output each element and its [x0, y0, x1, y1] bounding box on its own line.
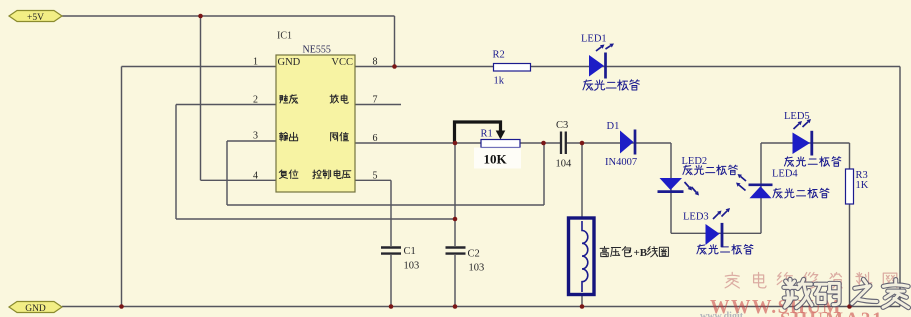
- svg-text:GND: GND: [25, 304, 46, 314]
- svg-text:8: 8: [373, 57, 378, 68]
- svg-text:R2: R2: [493, 50, 505, 61]
- svg-text:IC1: IC1: [277, 31, 292, 42]
- svg-text:+B: +B: [634, 247, 648, 259]
- svg-text:10K: 10K: [484, 152, 508, 167]
- svg-text:103: 103: [469, 263, 485, 274]
- svg-text:6: 6: [373, 133, 378, 144]
- svg-text:C3: C3: [556, 120, 568, 131]
- svg-text:VCC: VCC: [331, 57, 353, 68]
- svg-text:7: 7: [373, 95, 378, 106]
- svg-text:103: 103: [404, 261, 420, 272]
- svg-text:IN4007: IN4007: [605, 157, 637, 168]
- svg-text:1k: 1k: [494, 76, 505, 87]
- svg-text:D1: D1: [607, 121, 620, 132]
- svg-text:5: 5: [373, 170, 378, 181]
- svg-text:www.digit: www.digit: [700, 311, 744, 317]
- svg-text:C2: C2: [468, 249, 480, 260]
- svg-text:4: 4: [253, 170, 258, 181]
- svg-text:2: 2: [253, 95, 258, 106]
- svg-text:104: 104: [556, 159, 573, 170]
- svg-text:LED1: LED1: [581, 34, 607, 45]
- svg-text:LED5: LED5: [784, 111, 810, 122]
- svg-text:NE555: NE555: [303, 45, 331, 56]
- svg-text:C1: C1: [404, 246, 416, 257]
- svg-text:LED2: LED2: [682, 156, 708, 167]
- svg-text:GND: GND: [278, 57, 301, 68]
- svg-text:LED4: LED4: [772, 169, 798, 180]
- svg-text:1: 1: [253, 57, 258, 68]
- svg-text:3: 3: [253, 131, 258, 142]
- svg-text:LED3: LED3: [683, 212, 709, 223]
- svg-text:+5V: +5V: [27, 13, 44, 23]
- svg-text:R1: R1: [481, 129, 493, 140]
- svg-text:1K: 1K: [856, 180, 869, 191]
